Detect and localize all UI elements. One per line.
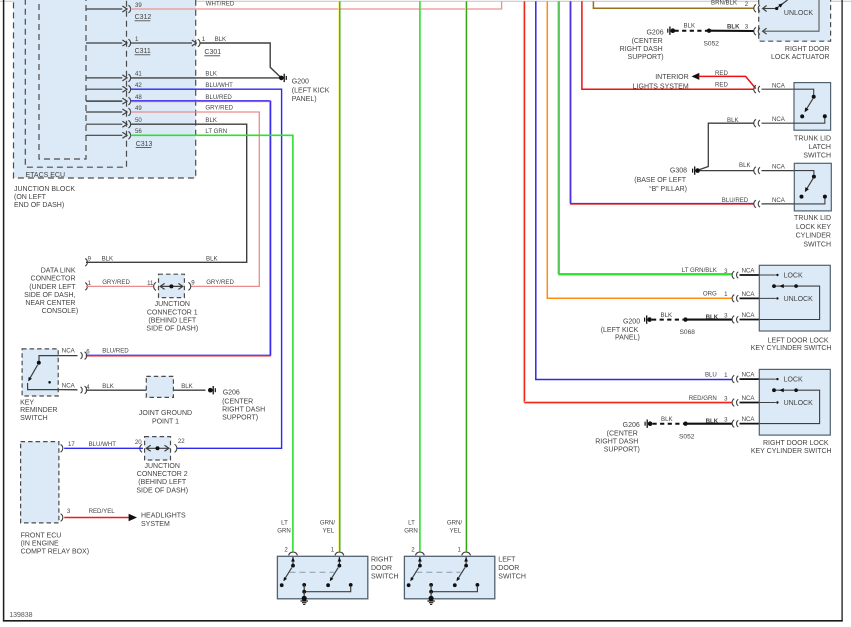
svg-text:NCA: NCA	[742, 291, 756, 298]
splice S068 with dashed BLK wire	[652, 312, 732, 336]
svg-text:49: 49	[135, 105, 142, 112]
svg-text:48: 48	[135, 94, 142, 101]
wire GRN/YEL vertical to left door switch pin 1	[465, 1, 468, 551]
right door switch mechanical link (dashed)	[290, 571, 334, 573]
svg-text:S068: S068	[680, 329, 696, 336]
wire LT GRN/BLK vertical from top to left door lock key cylinder switch	[558, 1, 732, 274]
left door switch mechanical link (dashed)	[416, 571, 460, 573]
svg-text:RIGHT DASH: RIGHT DASH	[595, 439, 638, 446]
svg-text:BLK: BLK	[661, 312, 673, 319]
svg-text:NCA: NCA	[772, 116, 786, 123]
right door lock key cylinder switch LOCK row connector	[705, 371, 759, 383]
front ECU (dashed box, in engine compt relay box)	[21, 442, 59, 523]
data link connector pin 1 with GRY/RED wire to junction connector 1	[85, 279, 234, 290]
svg-text:LEFT: LEFT	[498, 557, 516, 564]
svg-text:LEFT DOOR LOCK: LEFT DOOR LOCK	[768, 337, 829, 344]
svg-text:LT GRN: LT GRN	[205, 128, 227, 135]
svg-text:G206: G206	[646, 30, 663, 37]
right door lock actuator pin 2 connector	[711, 0, 760, 12]
svg-text:NCA: NCA	[62, 348, 76, 355]
wire BLU/RED pin 48 down to key reminder switch	[86, 94, 271, 356]
svg-text:KEY CYLINDER SWITCH: KEY CYLINDER SWITCH	[751, 448, 832, 455]
svg-text:GRN: GRN	[277, 528, 291, 535]
label RIGHT DOOR LOCK ACTUATOR	[771, 46, 829, 61]
wire GRN/YEL vertical to right door switch pin 1	[338, 1, 341, 551]
ground G308 (base of left B pillar)	[634, 166, 700, 193]
front ECU pin 3 connector	[61, 508, 116, 522]
trunk lid latch switch NCA connector (RED row)	[754, 82, 794, 93]
svg-text:SWITCH: SWITCH	[371, 573, 399, 580]
label TRUNK LID LATCH SWITCH	[794, 135, 831, 159]
svg-text:POINT 1: POINT 1	[152, 418, 179, 425]
svg-text:BLK: BLK	[205, 71, 217, 78]
svg-text:LATCH: LATCH	[809, 144, 831, 151]
ground G200 (left kick panel) for left door lock key cylinder switch	[601, 315, 652, 341]
svg-text:NCA: NCA	[742, 395, 756, 402]
svg-text:UNLOCK: UNLOCK	[784, 10, 814, 17]
label right door switch	[371, 557, 399, 581]
svg-text:WHT/RED: WHT/RED	[206, 1, 235, 8]
svg-text:INTERIOR: INTERIOR	[655, 74, 688, 81]
svg-text:(BASE OF LEFT: (BASE OF LEFT	[634, 177, 686, 184]
svg-text:PANEL): PANEL)	[615, 335, 640, 342]
svg-text:NCA: NCA	[772, 197, 786, 204]
left door lock key cylinder switch BLK row connector	[706, 312, 760, 323]
svg-text:CONNECTOR 2: CONNECTOR 2	[137, 471, 188, 478]
connector label C311	[135, 48, 151, 55]
dashed BLK wire from S052 to ground G206	[675, 23, 708, 31]
svg-text:NCA: NCA	[742, 312, 756, 319]
wire ORG vertical from top to left door lock key cylinder switch	[547, 1, 732, 298]
right door switch pin 2 connector	[284, 547, 297, 556]
svg-text:UNLOCK: UNLOCK	[784, 400, 814, 407]
pin 42 connector at ETACS ECU edge	[86, 82, 142, 93]
svg-text:SYSTEM: SYSTEM	[141, 521, 170, 528]
svg-text:SUPPORT): SUPPORT)	[604, 447, 640, 454]
pin 50 connector at ETACS ECU edge	[86, 117, 142, 128]
label TRUNK LID LOCK KEY CYLINDER SWITCH	[794, 215, 831, 248]
svg-text:BLU/WHT: BLU/WHT	[89, 441, 117, 448]
left door lock key cylinder switch box with LOCK/UNLOCK contacts	[759, 265, 830, 331]
label ETACS ECU	[26, 172, 66, 179]
left door switch pin 2 connector	[411, 547, 424, 556]
connector label C313	[136, 141, 153, 148]
junction connector 2 (behind left side of dash)	[135, 437, 185, 460]
wire BLK pin 1 C311 to C301	[131, 42, 192, 44]
svg-text:22: 22	[178, 438, 185, 445]
svg-text:LT GRN/BLK: LT GRN/BLK	[682, 267, 717, 274]
svg-text:YEL: YEL	[450, 528, 462, 535]
connector C301	[192, 36, 226, 56]
right door lock actuator (dashed box, cut off at top)	[759, 0, 831, 41]
right door switch switch blade for pin 2	[280, 557, 295, 587]
wire WHT/RED from pin 39 to top edge	[131, 1, 502, 9]
left door switch pin 1 connector	[458, 547, 471, 556]
svg-text:(BEHIND LEFT: (BEHIND LEFT	[148, 318, 197, 325]
wire label GRN/YEL (right door switch)	[320, 520, 336, 535]
svg-text:BLK: BLK	[102, 383, 114, 390]
left door switch ground symbol	[427, 596, 434, 605]
svg-text:SWITCH: SWITCH	[20, 415, 48, 422]
right door switch switch blade for pin 1	[326, 557, 341, 587]
wire BLU/WHT front ECU pin 17 to junction connector 2	[64, 447, 143, 449]
svg-text:TRUNK LID: TRUNK LID	[794, 215, 831, 222]
right door switch pin 1 connector	[331, 547, 344, 556]
svg-text:11: 11	[147, 280, 154, 287]
left door switch switch blade for pin 2	[407, 557, 422, 587]
svg-text:CONNECTOR 1: CONNECTOR 1	[147, 309, 198, 316]
svg-text:(CENTER: (CENTER	[222, 399, 253, 406]
wire RED vertical from top to trunk lid latch switch	[582, 1, 754, 89]
svg-text:(LEFT KICK: (LEFT KICK	[292, 87, 330, 94]
svg-text:G308: G308	[670, 168, 687, 175]
svg-text:BLK: BLK	[739, 162, 751, 169]
svg-text:BLK: BLK	[205, 117, 217, 124]
svg-text:LOCK KEY: LOCK KEY	[796, 224, 831, 231]
svg-text:G200: G200	[623, 319, 640, 326]
wire BLU vertical from top to right door lock key cylinder switch	[536, 1, 732, 379]
svg-text:(ON LEFT: (ON LEFT	[14, 194, 47, 201]
svg-text:BLU: BLU	[705, 371, 717, 378]
svg-text:JUNCTION: JUNCTION	[145, 463, 180, 470]
svg-text:BLK: BLK	[661, 416, 673, 423]
svg-text:BLU/RED: BLU/RED	[205, 94, 232, 101]
left door switch box	[404, 556, 494, 599]
svg-text:COMPT RELAY BOX): COMPT RELAY BOX)	[21, 549, 89, 556]
inner ECU dashed box	[39, 0, 86, 159]
label JUNCTION CONNECTOR 2 (BEHIND LEFT SIDE OF DASH)	[136, 463, 188, 494]
svg-text:KEY CYLINDER SWITCH: KEY CYLINDER SWITCH	[751, 345, 832, 352]
right door lock key cylinder switch UNLOCK row connector	[689, 395, 760, 407]
svg-text:GRN/: GRN/	[320, 520, 336, 527]
svg-text:RED/GRN: RED/GRN	[689, 395, 717, 402]
svg-text:BLK: BLK	[684, 23, 696, 30]
pin 39 connector at ETACS ECU edge	[86, 2, 142, 13]
right door lock key cylinder switch BLK row connector	[706, 416, 760, 427]
right door lock key cylinder switch box with LOCK/UNLOCK contacts	[759, 369, 830, 435]
trunk lid latch switch box	[794, 83, 831, 131]
label KEY REMINDER SWITCH	[20, 399, 57, 422]
svg-text:LOCK: LOCK	[784, 377, 803, 384]
wire RED/YEL to headlights system	[64, 517, 129, 519]
right door lock actuator unlock switch	[763, 0, 814, 17]
ground G206 (center right dash support) for actuator	[620, 27, 675, 62]
svg-text:NCA: NCA	[772, 82, 786, 89]
label JUNCTION CONNECTOR 1 (BEHIND LEFT SIDE OF DASH)	[146, 301, 198, 332]
svg-text:LIGHTS SYSTEM: LIGHTS SYSTEM	[633, 84, 689, 91]
junction connector 1 (behind left side of dash)	[147, 274, 195, 297]
splice S052 with bold BLK wire to actuator pin 3	[704, 24, 754, 48]
pin 56 connector at ETACS ECU edge	[86, 128, 142, 139]
svg-text:NEAR CENTER: NEAR CENTER	[25, 300, 75, 307]
svg-text:C311: C311	[135, 48, 151, 55]
svg-text:RED: RED	[715, 82, 728, 89]
svg-text:GRN: GRN	[404, 528, 418, 535]
svg-text:(CENTER: (CENTER	[632, 38, 663, 45]
svg-text:FRONT ECU: FRONT ECU	[21, 532, 62, 539]
key reminder switch (dashed box)	[22, 349, 58, 396]
svg-text:CYLINDER: CYLINDER	[796, 233, 831, 240]
svg-text:RIGHT DASH: RIGHT DASH	[222, 407, 265, 414]
label JOINT GROUND POINT 1	[139, 410, 192, 425]
svg-text:GRN/: GRN/	[447, 520, 463, 527]
svg-text:END OF DASH): END OF DASH)	[14, 202, 64, 209]
svg-text:RIGHT DOOR: RIGHT DOOR	[785, 46, 830, 53]
joint ground point 1 (dashed box)	[146, 376, 173, 397]
svg-text:BLK: BLK	[102, 256, 114, 263]
trunk lid latch switch NCA connector (BLK row)	[727, 116, 794, 127]
wire LT GRN pin 56 down to right door switch pin 2	[131, 128, 293, 551]
ground G200 (left kick panel)	[279, 74, 330, 103]
svg-text:42: 42	[135, 82, 142, 89]
ground G206 (center right dash support) for joint ground point 1	[208, 386, 265, 421]
svg-text:SWITCH: SWITCH	[803, 241, 831, 248]
svg-text:(LEFT KICK: (LEFT KICK	[601, 327, 639, 334]
wire BLK pin 50 down to data link connector	[86, 117, 247, 262]
svg-text:BLU/RED: BLU/RED	[102, 348, 129, 355]
svg-text:S052: S052	[704, 40, 720, 47]
left door lock key cylinder switch UNLOCK row connector	[703, 291, 759, 303]
svg-text:NCA: NCA	[772, 164, 786, 171]
svg-text:REMINDER: REMINDER	[20, 407, 57, 414]
svg-text:G200: G200	[292, 78, 309, 85]
wire RED/GRN vertical from top to right door lock key cylinder switch	[523, 1, 731, 402]
connector label C312	[135, 14, 152, 21]
svg-text:C301: C301	[204, 49, 221, 56]
svg-text:DOOR: DOOR	[371, 565, 392, 572]
svg-text:BLK: BLK	[206, 256, 218, 263]
trunk lid lock key cylinder switch box	[794, 163, 831, 211]
ground G206 (center right dash support) for right door lock key cylinder switch	[595, 420, 652, 454]
svg-text:CONSOLE): CONSOLE)	[42, 308, 79, 315]
right door lock actuator pin 3 connector and inner frame	[745, 0, 819, 35]
svg-text:“B” PILLAR): “B” PILLAR)	[649, 186, 687, 193]
wire GRY/RED pin 49 down to junction connector 1	[131, 105, 260, 287]
front ECU pin 17 connector	[61, 441, 117, 452]
svg-text:2: 2	[284, 547, 288, 554]
label JUNCTION BLOCK (ON LEFT END OF DASH)	[14, 186, 75, 209]
headlights system arrow	[129, 513, 186, 528]
svg-text:139838: 139838	[9, 612, 32, 619]
label FRONT ECU (IN ENGINE COMPT RELAY BOX)	[21, 532, 89, 555]
svg-text:(CENTER: (CENTER	[607, 431, 638, 438]
label DATA LINK CONNECTOR (UNDER LEFT SIDE OF DASH, NEAR CENTER CONSOLE)	[24, 267, 78, 315]
svg-text:JUNCTION: JUNCTION	[155, 301, 190, 308]
trunk lid lock key cylinder switch NCA connector (BLK row)	[754, 164, 794, 175]
junction block (dashed box, on left end of dash)	[14, 0, 196, 178]
wire BLU/RED vertical from top to trunk lid lock key cylinder switch	[570, 1, 754, 204]
svg-text:LT: LT	[408, 520, 415, 527]
svg-text:DATA LINK: DATA LINK	[41, 267, 76, 274]
left door lock key cylinder switch LOCK row connector	[682, 267, 760, 279]
pin 49 connector at ETACS ECU edge	[86, 105, 142, 116]
top cut-off edge line	[0, 0, 851, 2]
data link connector pin 9	[85, 256, 217, 266]
svg-text:PANEL): PANEL)	[292, 96, 317, 103]
wire BRN/BLK from top to right door lock actuator pin 2	[593, 1, 753, 8]
svg-text:RIGHT DOOR LOCK: RIGHT DOOR LOCK	[763, 440, 829, 447]
svg-text:39: 39	[135, 2, 142, 9]
key reminder switch pin 4 NCA connector with BLK wire	[58, 383, 205, 394]
svg-text:S052: S052	[679, 433, 695, 440]
wire BLK from ground G308 to trunk lid lock key cylinder switch	[700, 162, 754, 171]
svg-text:LOCK ACTUATOR: LOCK ACTUATOR	[771, 54, 829, 61]
svg-text:BLU/WHT: BLU/WHT	[205, 82, 233, 89]
wire label LT GRN (left door switch)	[404, 520, 418, 535]
svg-text:BLU/RED: BLU/RED	[722, 197, 749, 204]
svg-text:BLK: BLK	[215, 36, 227, 43]
svg-text:RIGHT DASH: RIGHT DASH	[620, 46, 663, 53]
trunk lid lock key cylinder switch NCA connector (BLU/RED row)	[722, 197, 795, 208]
svg-text:JUNCTION BLOCK: JUNCTION BLOCK	[14, 186, 75, 193]
wire label LT GRN (right door switch)	[277, 520, 291, 535]
svg-text:RED: RED	[715, 70, 728, 77]
svg-text:ORG: ORG	[703, 291, 717, 298]
svg-text:UNLOCK: UNLOCK	[784, 296, 814, 303]
svg-text:CONNECTOR: CONNECTOR	[31, 276, 76, 283]
left door switch switch blade for pin 1	[453, 557, 468, 587]
splice S052 with dashed BLK wire (lower)	[653, 416, 732, 440]
pin 1 connector at ETACS ECU edge	[86, 36, 139, 47]
svg-text:NCA: NCA	[62, 383, 76, 390]
svg-text:GRY/RED: GRY/RED	[206, 279, 234, 286]
svg-text:GRY/RED: GRY/RED	[205, 105, 233, 112]
wire BLK pin 41 to ground G200	[131, 71, 280, 78]
svg-text:C312: C312	[135, 14, 152, 21]
svg-text:G206: G206	[223, 389, 240, 396]
svg-text:G206: G206	[623, 422, 640, 429]
label RIGHT DOOR LOCK KEY CYLINDER SWITCH	[751, 440, 832, 455]
svg-text:SUPPORT): SUPPORT)	[628, 54, 664, 61]
svg-text:LT: LT	[281, 520, 288, 527]
svg-text:C313: C313	[136, 141, 153, 148]
svg-text:RED/YEL: RED/YEL	[89, 508, 116, 515]
svg-text:TRUNK LID: TRUNK LID	[794, 135, 831, 142]
svg-text:SIDE OF DASH): SIDE OF DASH)	[136, 487, 188, 494]
right door switch ground rail and contacts	[302, 583, 352, 599]
svg-text:20: 20	[135, 439, 142, 446]
svg-text:SUPPORT): SUPPORT)	[222, 414, 258, 421]
svg-text:50: 50	[135, 117, 142, 124]
svg-text:(BEHIND LEFT: (BEHIND LEFT	[138, 479, 187, 486]
wire BLK from trunk lid latch switch to ground G308	[699, 123, 754, 170]
wire LT GRN vertical to left door switch pin 2	[419, 1, 421, 551]
right door switch ground symbol	[301, 596, 308, 605]
svg-text:41: 41	[135, 71, 142, 78]
pin 48 connector at ETACS ECU edge	[86, 94, 142, 105]
svg-text:SIDE OF DASH): SIDE OF DASH)	[146, 326, 198, 333]
label LEFT DOOR LOCK KEY CYLINDER SWITCH	[751, 337, 832, 352]
svg-text:56: 56	[135, 128, 142, 135]
svg-text:JOINT GROUND: JOINT GROUND	[139, 410, 192, 417]
svg-text:SWITCH: SWITCH	[803, 153, 831, 160]
svg-text:(UNDER LEFT: (UNDER LEFT	[29, 284, 76, 291]
svg-text:RIGHT: RIGHT	[371, 557, 394, 564]
left door switch ground rail and contacts	[429, 583, 479, 599]
svg-text:BLK: BLK	[727, 24, 740, 31]
svg-text:SIDE OF DASH,: SIDE OF DASH,	[24, 292, 75, 299]
interior lights system arrow with RED wires	[633, 70, 756, 90]
wire BLU/WHT pin 42 down to junction connector 2	[131, 82, 282, 448]
ETACS ECU box	[25, 0, 126, 167]
label left door switch	[498, 557, 526, 581]
svg-text:SWITCH: SWITCH	[498, 573, 526, 580]
svg-text:1: 1	[202, 36, 206, 43]
svg-text:GRY/RED: GRY/RED	[102, 279, 130, 286]
svg-text:ETACS ECU: ETACS ECU	[26, 172, 66, 179]
page number 139838	[9, 612, 32, 619]
svg-text:BLK: BLK	[181, 383, 193, 390]
wire label GRN/YEL (left door switch)	[447, 520, 463, 535]
svg-text:KEY: KEY	[20, 399, 34, 406]
right door switch box	[277, 556, 367, 599]
svg-text:DOOR: DOOR	[498, 565, 519, 572]
pin 41 connector at ETACS ECU edge	[86, 71, 142, 82]
key reminder switch pin 6 NCA connector	[58, 348, 129, 360]
svg-text:NCA: NCA	[742, 268, 756, 275]
svg-text:LOCK: LOCK	[784, 273, 803, 280]
svg-text:(IN ENGINE: (IN ENGINE	[21, 541, 59, 548]
svg-text:YEL: YEL	[323, 528, 335, 535]
svg-text:BRN/BLK: BRN/BLK	[711, 0, 737, 7]
svg-text:HEADLIGHTS: HEADLIGHTS	[141, 513, 186, 520]
svg-text:NCA: NCA	[742, 372, 756, 379]
svg-text:17: 17	[68, 441, 75, 448]
wire BLK from C301 down to ground G200	[200, 43, 281, 77]
svg-text:NCA: NCA	[742, 416, 756, 423]
